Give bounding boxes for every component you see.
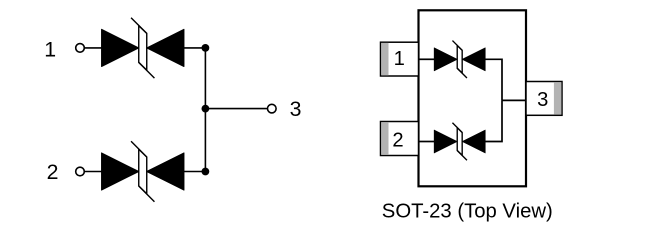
- svg-text:2: 2: [47, 160, 59, 184]
- wire pin1 to D1: [84, 47, 101, 49]
- wire pin2 to D2: [84, 171, 101, 173]
- svg-text:1: 1: [44, 38, 56, 62]
- svg-text:SOT-23 (Top View): SOT-23 (Top View): [382, 201, 553, 223]
- svg-text:3: 3: [537, 89, 548, 111]
- TVS diode D2 package: [434, 123, 485, 160]
- pin 1 lead: [381, 42, 419, 76]
- TVS diode D1: [102, 18, 184, 78]
- wire D2 to node B: [184, 171, 205, 173]
- svg-text:1: 1: [394, 48, 405, 70]
- junction node B: [202, 168, 210, 176]
- junction node A: [202, 44, 210, 52]
- svg-text:3: 3: [290, 97, 302, 121]
- pin 3 lead: [526, 82, 562, 116]
- wire node C to pin 3: [205, 108, 267, 110]
- wire package D2 to bus: [485, 100, 502, 141]
- terminal pin 3: [268, 104, 277, 113]
- wire node A to node B: [204, 48, 206, 172]
- wire D1 to node A: [184, 47, 205, 49]
- TVS diode D2: [102, 141, 184, 201]
- terminal pin 2: [76, 167, 85, 176]
- SOT-23 package body: [419, 10, 527, 186]
- pin 2 lead: [381, 122, 419, 156]
- terminal pin 1: [76, 44, 85, 53]
- wire bus to pin3 lead: [502, 99, 526, 101]
- svg-text:2: 2: [392, 129, 403, 151]
- wire pin1 lead to package D1: [419, 58, 435, 60]
- junction node C: [202, 105, 210, 113]
- wire package D1 to bus: [485, 59, 502, 100]
- TVS diode D1 package: [434, 41, 485, 78]
- wire pin2 lead to package D2: [419, 141, 435, 143]
